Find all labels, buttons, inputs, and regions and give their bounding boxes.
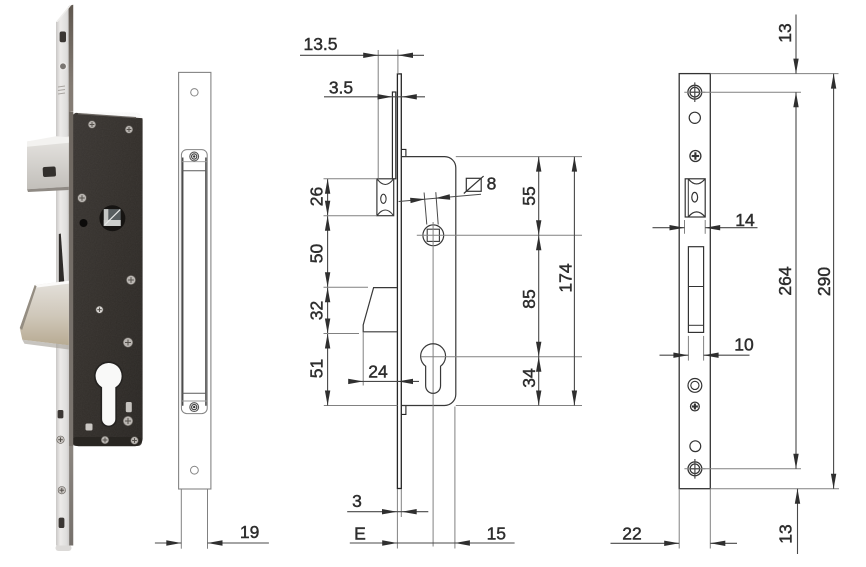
svg-text:13: 13: [775, 23, 795, 42]
svg-text:24: 24: [368, 361, 388, 381]
svg-text:13.5: 13.5: [303, 34, 337, 54]
svg-text:55: 55: [519, 186, 539, 205]
svg-text:3.5: 3.5: [329, 77, 353, 97]
svg-text:51: 51: [306, 359, 326, 378]
svg-text:50: 50: [306, 244, 326, 264]
svg-text:34: 34: [519, 368, 539, 388]
svg-text:E: E: [354, 523, 366, 543]
svg-text:174: 174: [555, 263, 575, 292]
svg-text:32: 32: [306, 301, 326, 320]
svg-text:85: 85: [519, 289, 539, 308]
svg-text:15: 15: [487, 523, 506, 543]
svg-text:14: 14: [735, 210, 755, 230]
svg-text:22: 22: [622, 523, 641, 543]
svg-text:10: 10: [734, 334, 754, 354]
svg-text:290: 290: [814, 267, 834, 296]
svg-text:19: 19: [240, 522, 259, 542]
svg-text:3: 3: [352, 491, 362, 511]
svg-text:264: 264: [775, 266, 795, 295]
svg-text:26: 26: [306, 187, 326, 206]
svg-text:13: 13: [776, 524, 796, 543]
svg-text:8: 8: [487, 174, 497, 194]
